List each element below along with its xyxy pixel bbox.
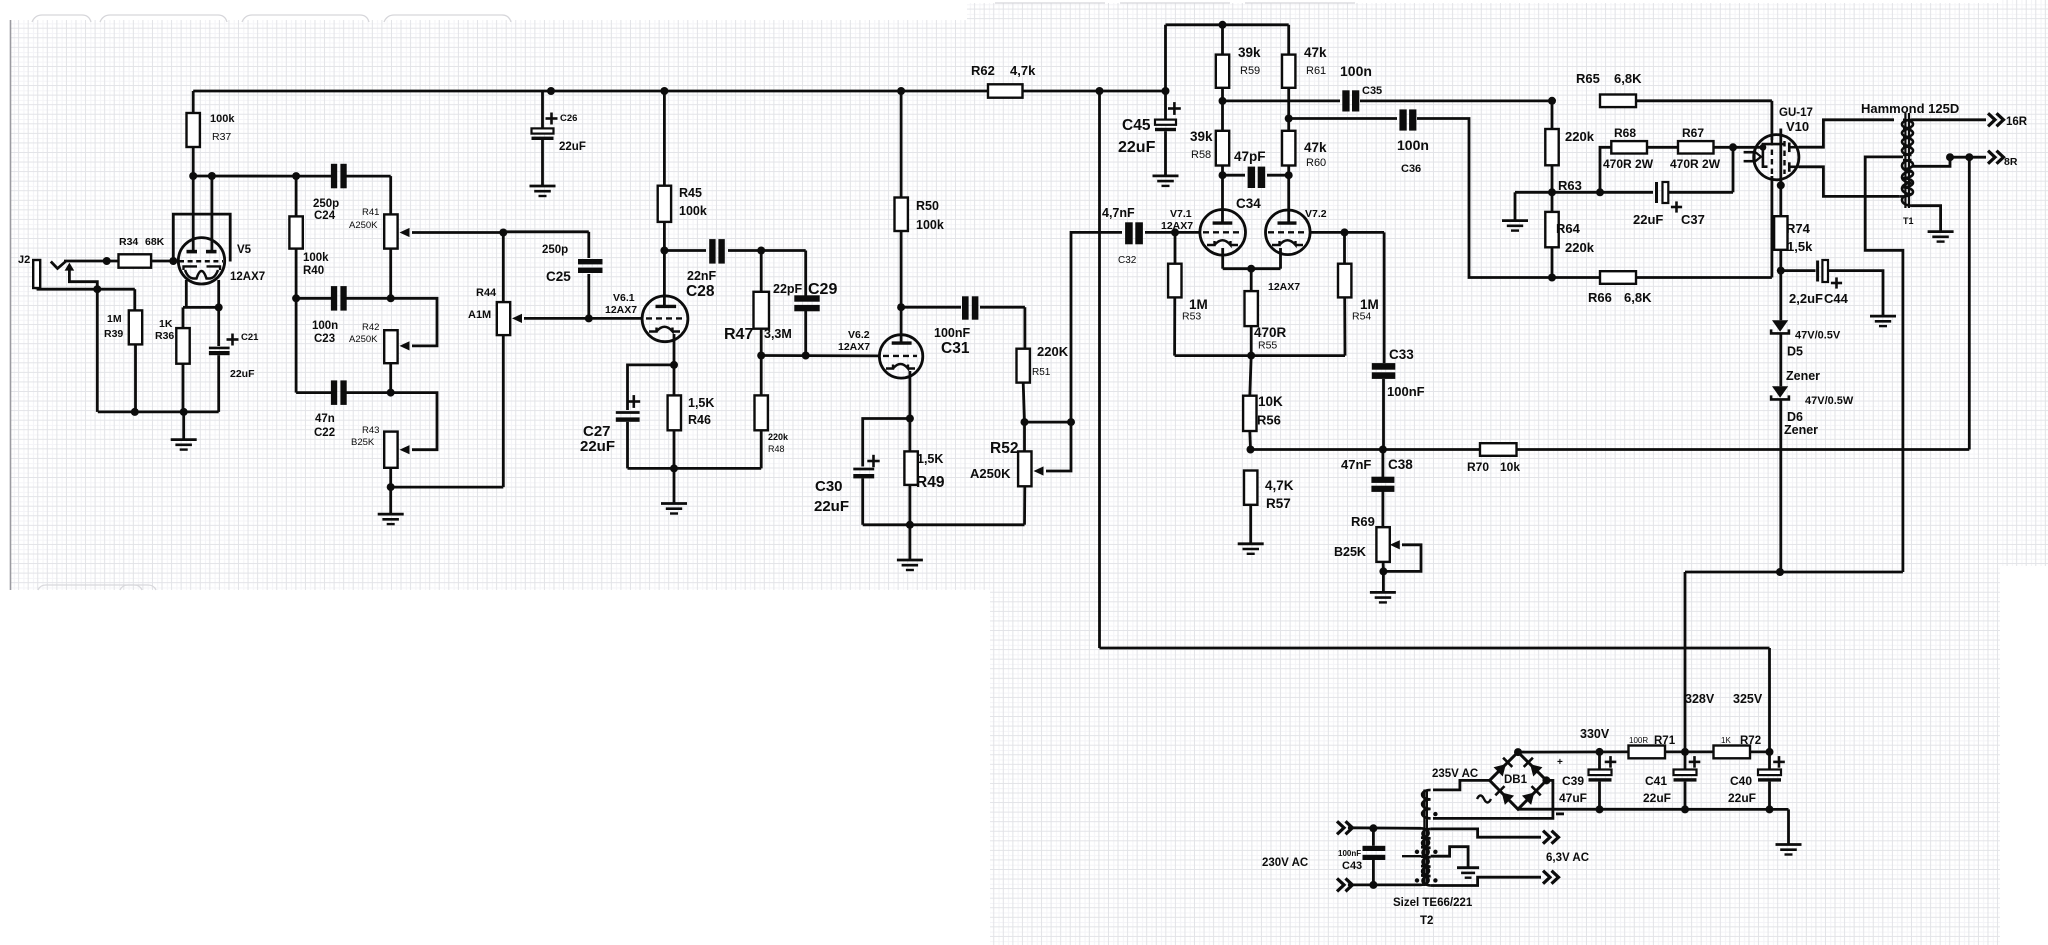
svg-text:C22: C22 [314, 427, 335, 439]
V7.1 plate bar [1213, 221, 1233, 224]
svg-text:R44: R44 [476, 287, 497, 299]
svg-text:R59: R59 [1240, 65, 1260, 77]
svg-text:R72: R72 [1740, 735, 1761, 747]
svg-text:R60: R60 [1306, 157, 1326, 169]
resistor R66 [1600, 271, 1636, 284]
svg-text:C21: C21 [241, 332, 259, 343]
svg-text:D6: D6 [1787, 410, 1803, 424]
resistor R59 [1216, 55, 1229, 88]
capacitor C28 plates [709, 239, 715, 264]
wire feedback row left [1251, 448, 1481, 451]
ground C45 [1153, 174, 1179, 177]
wire T2 primary tap stub [1402, 855, 1421, 857]
svg-text:39k: 39k [1238, 45, 1261, 60]
svg-text:470R 2W: 470R 2W [1603, 157, 1654, 171]
svg-text:47nF: 47nF [1341, 457, 1371, 472]
V6.1 plate bar [656, 305, 677, 308]
ground T1 secondary [1928, 230, 1954, 233]
ground C26 [530, 185, 556, 188]
wire V5 plate a [192, 176, 195, 251]
svg-text:R58: R58 [1191, 149, 1211, 161]
node C40 bottom [1766, 805, 1774, 813]
resistor R51 [1024, 307, 1027, 349]
capacitor C35 [1223, 100, 1341, 103]
svg-text:16R: 16R [2006, 116, 2028, 128]
wire 16R output [1912, 118, 1987, 121]
svg-text:230V AC: 230V AC [1262, 857, 1308, 869]
capacitor C22 [331, 380, 337, 405]
svg-text:GU-17: GU-17 [1779, 107, 1813, 119]
jack J2 symbol [33, 260, 40, 288]
ground tone stack [378, 513, 404, 516]
svg-text:R53: R53 [1182, 311, 1201, 323]
svg-text:C39: C39 [1562, 774, 1584, 788]
wire 8R tap [1912, 157, 1951, 166]
node bridge ac2 [1542, 776, 1550, 784]
svg-text:A250K: A250K [349, 220, 378, 231]
svg-text:6,3V AC: 6,3V AC [1546, 852, 1589, 864]
svg-text:C26: C26 [560, 113, 577, 124]
wire R39 to ground bus [134, 344, 137, 412]
potentiometer R52 [1023, 422, 1026, 451]
svg-text:22pF: 22pF [773, 282, 803, 296]
svg-text:100n: 100n [1397, 137, 1429, 153]
svg-text:100nF: 100nF [934, 326, 970, 340]
svg-text:12AX7: 12AX7 [838, 341, 870, 353]
T2 heater secondary coil [1422, 829, 1431, 886]
wire R65 to grid top [1636, 99, 1772, 102]
bridge rectifier DB1 [1490, 752, 1547, 809]
zener diode D5 [1779, 271, 1782, 321]
svg-text:47pF: 47pF [1234, 149, 1266, 164]
svg-text:12AX7: 12AX7 [1161, 220, 1193, 232]
ground V6.2 cathode [897, 559, 923, 562]
svg-text:12AX7: 12AX7 [230, 271, 265, 283]
wire main plate rail right [1023, 90, 1166, 93]
svg-text:22uF: 22uF [559, 141, 586, 153]
capacitor C29 [804, 251, 807, 298]
svg-text:235V AC: 235V AC [1432, 768, 1478, 780]
wire feedback vertical [1968, 157, 1971, 449]
wire tone bottom bus [391, 486, 504, 489]
capacitor C33 plates [1372, 363, 1396, 370]
node C24 left [292, 172, 300, 180]
dot T2 heater phase b [1433, 878, 1437, 882]
svg-text:C43: C43 [1342, 860, 1362, 872]
node C37 left [1596, 188, 1604, 196]
svg-text:R64: R64 [1556, 221, 1581, 236]
node R47 top [757, 247, 765, 255]
tube V7.1 12AX7 [1200, 210, 1246, 256]
svg-text:22uF: 22uF [1728, 791, 1756, 805]
wire 6.3V top [1431, 829, 1541, 837]
resistor R71 [1629, 746, 1666, 759]
resistor R50 [895, 198, 908, 232]
capacitor C23 [331, 286, 337, 311]
node C43 bottom [1369, 881, 1377, 889]
svg-text:C23: C23 [314, 333, 335, 345]
node V7.1 grid [1171, 228, 1179, 236]
wire mains bottom [1348, 884, 1421, 887]
svg-text:4,7K: 4,7K [1265, 478, 1294, 493]
node R49 ground [906, 521, 914, 529]
node R43 top [387, 389, 395, 397]
svg-text:12AX7: 12AX7 [1268, 281, 1300, 293]
svg-text:V10: V10 [1786, 119, 1809, 134]
node R42 top [387, 294, 395, 302]
wire R37 bottom [192, 147, 195, 176]
node C32 feed [1067, 418, 1075, 426]
V7.2 plate bar [1278, 221, 1297, 224]
resistor R70 [1480, 443, 1517, 456]
svg-text:8R: 8R [2004, 156, 2018, 168]
node R67 out [1729, 143, 1737, 151]
wire jack sleeve [35, 288, 38, 289]
resistor R68 [1611, 141, 1647, 153]
svg-text:6,8K: 6,8K [1624, 290, 1652, 305]
wire plus rail 330V [1518, 751, 1629, 754]
capacitor C25 plates [578, 259, 603, 264]
capacitor C43 [1372, 828, 1375, 846]
svg-text:R43: R43 [362, 425, 379, 436]
svg-text:B25K: B25K [351, 437, 375, 448]
node B+ drop [1096, 87, 1104, 95]
wire V5 plate b [210, 176, 213, 251]
node V6.2 grid line [757, 352, 765, 360]
capacitor C38 plates [1371, 477, 1394, 483]
svg-text:C25: C25 [546, 269, 571, 284]
V10 plate stubs [1788, 143, 1791, 153]
node C39 bottom [1596, 805, 1604, 813]
capacitor C45 plates [1155, 120, 1176, 125]
svg-text:DB1: DB1 [1504, 774, 1528, 786]
node R39 bottom [131, 408, 139, 416]
ground screen bypass [1502, 219, 1528, 222]
svg-text:R63: R63 [1558, 178, 1582, 193]
ground heater CT [1457, 866, 1479, 869]
V10 grid connector arrow [1744, 151, 1754, 154]
resistor R54 [1310, 231, 1384, 234]
resistor R63 [1545, 129, 1558, 165]
capacitor C36 [1289, 117, 1397, 120]
node C43 top [1369, 824, 1377, 832]
node C39 top [1596, 748, 1604, 756]
svg-text:R68: R68 [1614, 126, 1636, 140]
dot T2 HT phase [1433, 812, 1437, 816]
svg-text:47k: 47k [1304, 140, 1327, 155]
svg-text:325V: 325V [1733, 692, 1763, 706]
svg-text:100k: 100k [303, 252, 329, 264]
wire B+ 325V to preamp [1100, 647, 1770, 650]
tab artifacts top-left [32, 15, 511, 22]
diode DB1-3 [1495, 786, 1514, 805]
transformer T2 core [1423, 790, 1425, 887]
ground C44 [1870, 315, 1896, 318]
svg-text:C45: C45 [1122, 117, 1151, 134]
svg-text:R46: R46 [688, 413, 711, 427]
wire R41 wiper from R44 [412, 231, 503, 234]
svg-text:3,3M: 3,3M [764, 327, 792, 341]
label bridge minus [1556, 813, 1564, 816]
potentiometer R69 [1376, 527, 1389, 562]
wire to tone stack [193, 175, 296, 178]
T1 primary bottom coil [1903, 160, 1913, 196]
node grid input [103, 257, 111, 265]
node R36 bottom [180, 408, 188, 416]
resistor R40 [289, 216, 302, 248]
node V6.2 cathode [906, 415, 914, 423]
wire C37 right leg [1732, 147, 1735, 192]
svg-text:B25K: B25K [1334, 545, 1366, 559]
node R50 top [897, 87, 905, 95]
transformer T1 core [1904, 113, 1906, 208]
svg-text:10K: 10K [1258, 394, 1283, 409]
svg-text:22nF: 22nF [687, 269, 717, 283]
potentiometer R43 [384, 432, 397, 468]
svg-text:R50: R50 [916, 199, 939, 213]
zener diode D6 [1779, 333, 1782, 386]
V10 grid line vertical [1771, 101, 1774, 140]
left border line [10, 20, 12, 590]
diode DB1-2 [1524, 758, 1543, 777]
node V10 cathode [1777, 181, 1785, 189]
resistor R74 [1774, 216, 1787, 250]
node cathode C27 tap [670, 361, 678, 369]
resistor R56 [1243, 396, 1256, 431]
wire V5 grid loop box [173, 214, 230, 261]
node C34 left [1219, 171, 1227, 179]
tab artifacts top-right [995, 2, 1355, 4]
svg-text:R65: R65 [1576, 71, 1600, 86]
wire V6.1 cathode [673, 334, 676, 395]
svg-text:A250K: A250K [349, 334, 378, 345]
capacitor C29 plates [794, 295, 819, 301]
ground R69 [1370, 591, 1396, 594]
svg-text:Sizel TE66/221: Sizel TE66/221 [1393, 897, 1473, 909]
svg-text:R67: R67 [1682, 126, 1704, 140]
wire jack switch to ground [69, 270, 97, 290]
wire V10 plate bottom to T1 [1799, 167, 1899, 197]
T1 primary top coil [1903, 120, 1913, 155]
V10 screen dashed [1783, 141, 1785, 174]
capacitor C21 [217, 307, 220, 346]
svg-text:R45: R45 [679, 186, 702, 200]
wire grid input [64, 260, 119, 263]
wire 6.3V bottom [1431, 877, 1541, 885]
svg-text:R51: R51 [1032, 367, 1051, 378]
svg-text:V6.2: V6.2 [848, 329, 870, 341]
node R44 top [499, 229, 507, 237]
svg-text:C34: C34 [1236, 196, 1261, 211]
svg-text:C29: C29 [808, 281, 837, 298]
svg-text:1K: 1K [159, 318, 173, 330]
capacitor C44 electrolytic [1781, 269, 1816, 272]
resistor R72 [1714, 746, 1751, 759]
resistor R61 [1282, 55, 1295, 88]
node C38 top [1379, 446, 1387, 454]
wire R43 bottom [389, 468, 392, 487]
potentiometer R41 [389, 176, 392, 214]
svg-text:C24: C24 [314, 210, 336, 222]
svg-text:22uF: 22uF [1643, 791, 1671, 805]
tube V6.2 12AX7 [879, 335, 922, 378]
wire heater center tap [1431, 847, 1469, 868]
resistor R67 [1678, 141, 1714, 153]
svg-text:R48: R48 [768, 444, 785, 454]
wire R41 to R42 [389, 249, 392, 299]
node R69 bottom [1379, 567, 1387, 575]
node jack-ground junction [93, 285, 101, 293]
ground R57 [1238, 542, 1264, 545]
wire R43 wiper loop [391, 393, 437, 450]
svg-text:68K: 68K [145, 236, 165, 248]
node V6.1 ground [670, 464, 678, 472]
node bridge plus [1514, 748, 1522, 756]
node V5 plate [189, 172, 197, 180]
node 325V/C40 [1766, 748, 1774, 756]
svg-text:D5: D5 [1787, 345, 1803, 359]
node C29 bottom [802, 352, 810, 360]
ground input stage [171, 438, 197, 441]
wire D6 to PSU [1779, 399, 1782, 572]
svg-text:100k: 100k [679, 204, 707, 218]
grid background right screenshot [967, 3, 2000, 590]
V10 cathode bracket [1763, 144, 1784, 167]
svg-text:100n: 100n [312, 320, 338, 332]
svg-text:R54: R54 [1352, 311, 1371, 323]
connector 6.3V a [1543, 831, 1550, 844]
node V5 plate b [208, 172, 216, 180]
wire V6.2 cathode bus [863, 523, 1025, 526]
capacitor C31 plates [962, 296, 969, 319]
grid background left screenshot [10, 20, 992, 590]
svg-text:6,8K: 6,8K [1614, 71, 1642, 86]
wire to R68 [1600, 147, 1611, 192]
svg-text:330V: 330V [1580, 727, 1610, 741]
capacitor C37 electrolytic [1600, 191, 1653, 194]
svg-text:100n: 100n [1340, 63, 1372, 79]
node 328V/C41 [1681, 748, 1689, 756]
svg-text:V7.2: V7.2 [1305, 208, 1327, 220]
T1 secondary top coil [1902, 120, 1912, 155]
capacitor C34 [1221, 166, 1224, 224]
node C35 tap [1219, 97, 1227, 105]
capacitor C31 [901, 306, 961, 309]
svg-text:470R: 470R [1254, 325, 1287, 340]
svg-text:+: + [1557, 757, 1563, 768]
resistor R64 [1545, 212, 1558, 247]
wire R42 to R43 [389, 363, 392, 392]
wire V7 cathode bus [1221, 248, 1224, 269]
wire T1 primary center tap to B+ [1865, 157, 1903, 572]
diode DB1-1 [1494, 758, 1513, 777]
resistor R57 [1244, 471, 1257, 505]
wire cathode bus [183, 306, 219, 309]
svg-text:220k: 220k [1565, 240, 1595, 255]
ground V6.1 cathode [661, 502, 687, 505]
svg-text:A250K: A250K [970, 466, 1011, 481]
svg-text:V5: V5 [237, 244, 252, 256]
resistor R36 [176, 328, 189, 364]
svg-text:C41: C41 [1645, 774, 1667, 788]
dot T2 primary phase b [1415, 878, 1419, 882]
svg-text:R70: R70 [1467, 460, 1489, 474]
grid background top-right sliver [2000, 0, 2048, 566]
svg-text:1,5K: 1,5K [688, 396, 714, 410]
wire splitter top rail [1166, 23, 1289, 26]
svg-text:4,7nF: 4,7nF [1102, 206, 1135, 220]
svg-text:22uF: 22uF [230, 368, 255, 380]
svg-text:T1: T1 [1903, 216, 1914, 226]
node C23 left [292, 294, 300, 302]
V5 grid dashed [179, 260, 223, 263]
tube V6.1 12AX7 [642, 296, 688, 342]
svg-text:C28: C28 [686, 283, 715, 300]
V5 plate bars [187, 250, 198, 254]
node V7.2 grid right [1341, 228, 1349, 236]
svg-text:100R: 100R [1629, 736, 1648, 745]
svg-text:47V/0.5V: 47V/0.5V [1795, 330, 1841, 342]
wire R50 top [900, 91, 903, 198]
wire V6.1 grid / R44 wiper [524, 317, 589, 320]
resistor R55 [1245, 291, 1258, 326]
svg-text:1K: 1K [1721, 736, 1731, 745]
svg-text:R71: R71 [1654, 735, 1676, 747]
svg-text:R41: R41 [362, 207, 379, 218]
svg-text:220k: 220k [1565, 129, 1595, 144]
wire to R39 [133, 289, 136, 310]
node R57 top [1247, 446, 1255, 454]
jack switch arrow [65, 263, 75, 271]
svg-text:R39: R39 [104, 328, 123, 340]
svg-text:47uF: 47uF [1559, 791, 1587, 805]
node R63 top [1548, 97, 1556, 105]
svg-text:R34: R34 [119, 236, 138, 248]
wire C22 row [296, 391, 331, 394]
node zener to PSU [1776, 568, 1784, 576]
svg-text:C30: C30 [815, 478, 843, 495]
svg-text:4,7k: 4,7k [1010, 63, 1036, 78]
svg-text:47n: 47n [315, 413, 335, 425]
node tone ground [387, 483, 395, 491]
connector 8R [1988, 151, 1995, 164]
node R45 top [660, 87, 668, 95]
resistor R34 [119, 254, 152, 267]
resistor R62 [988, 84, 1023, 97]
svg-text:39k: 39k [1190, 129, 1213, 144]
wire B+ drop to PSU [1098, 91, 1101, 648]
wire mains top [1348, 826, 1421, 829]
svg-text:22uF: 22uF [1633, 212, 1663, 227]
T2 primary coil [1421, 828, 1429, 885]
node 8R tap [1946, 153, 1954, 161]
svg-text:470R 2W: 470R 2W [1670, 157, 1721, 171]
node V5 grid [169, 257, 177, 265]
wire 328V rail [1685, 571, 1903, 574]
connector mains N [1337, 878, 1344, 891]
svg-text:250p: 250p [542, 244, 568, 256]
svg-text:Zener: Zener [1784, 423, 1818, 437]
wire R42 wiper loop [391, 298, 437, 346]
svg-text:R57: R57 [1266, 496, 1291, 511]
svg-text:C35: C35 [1362, 85, 1382, 97]
svg-text:C36: C36 [1401, 163, 1421, 175]
svg-text:C32: C32 [1118, 255, 1137, 266]
wire main plate rail [193, 90, 988, 93]
svg-text:10k: 10k [1500, 460, 1520, 474]
wire R69 wiper loop [1383, 545, 1421, 572]
svg-text:C38: C38 [1388, 457, 1413, 472]
